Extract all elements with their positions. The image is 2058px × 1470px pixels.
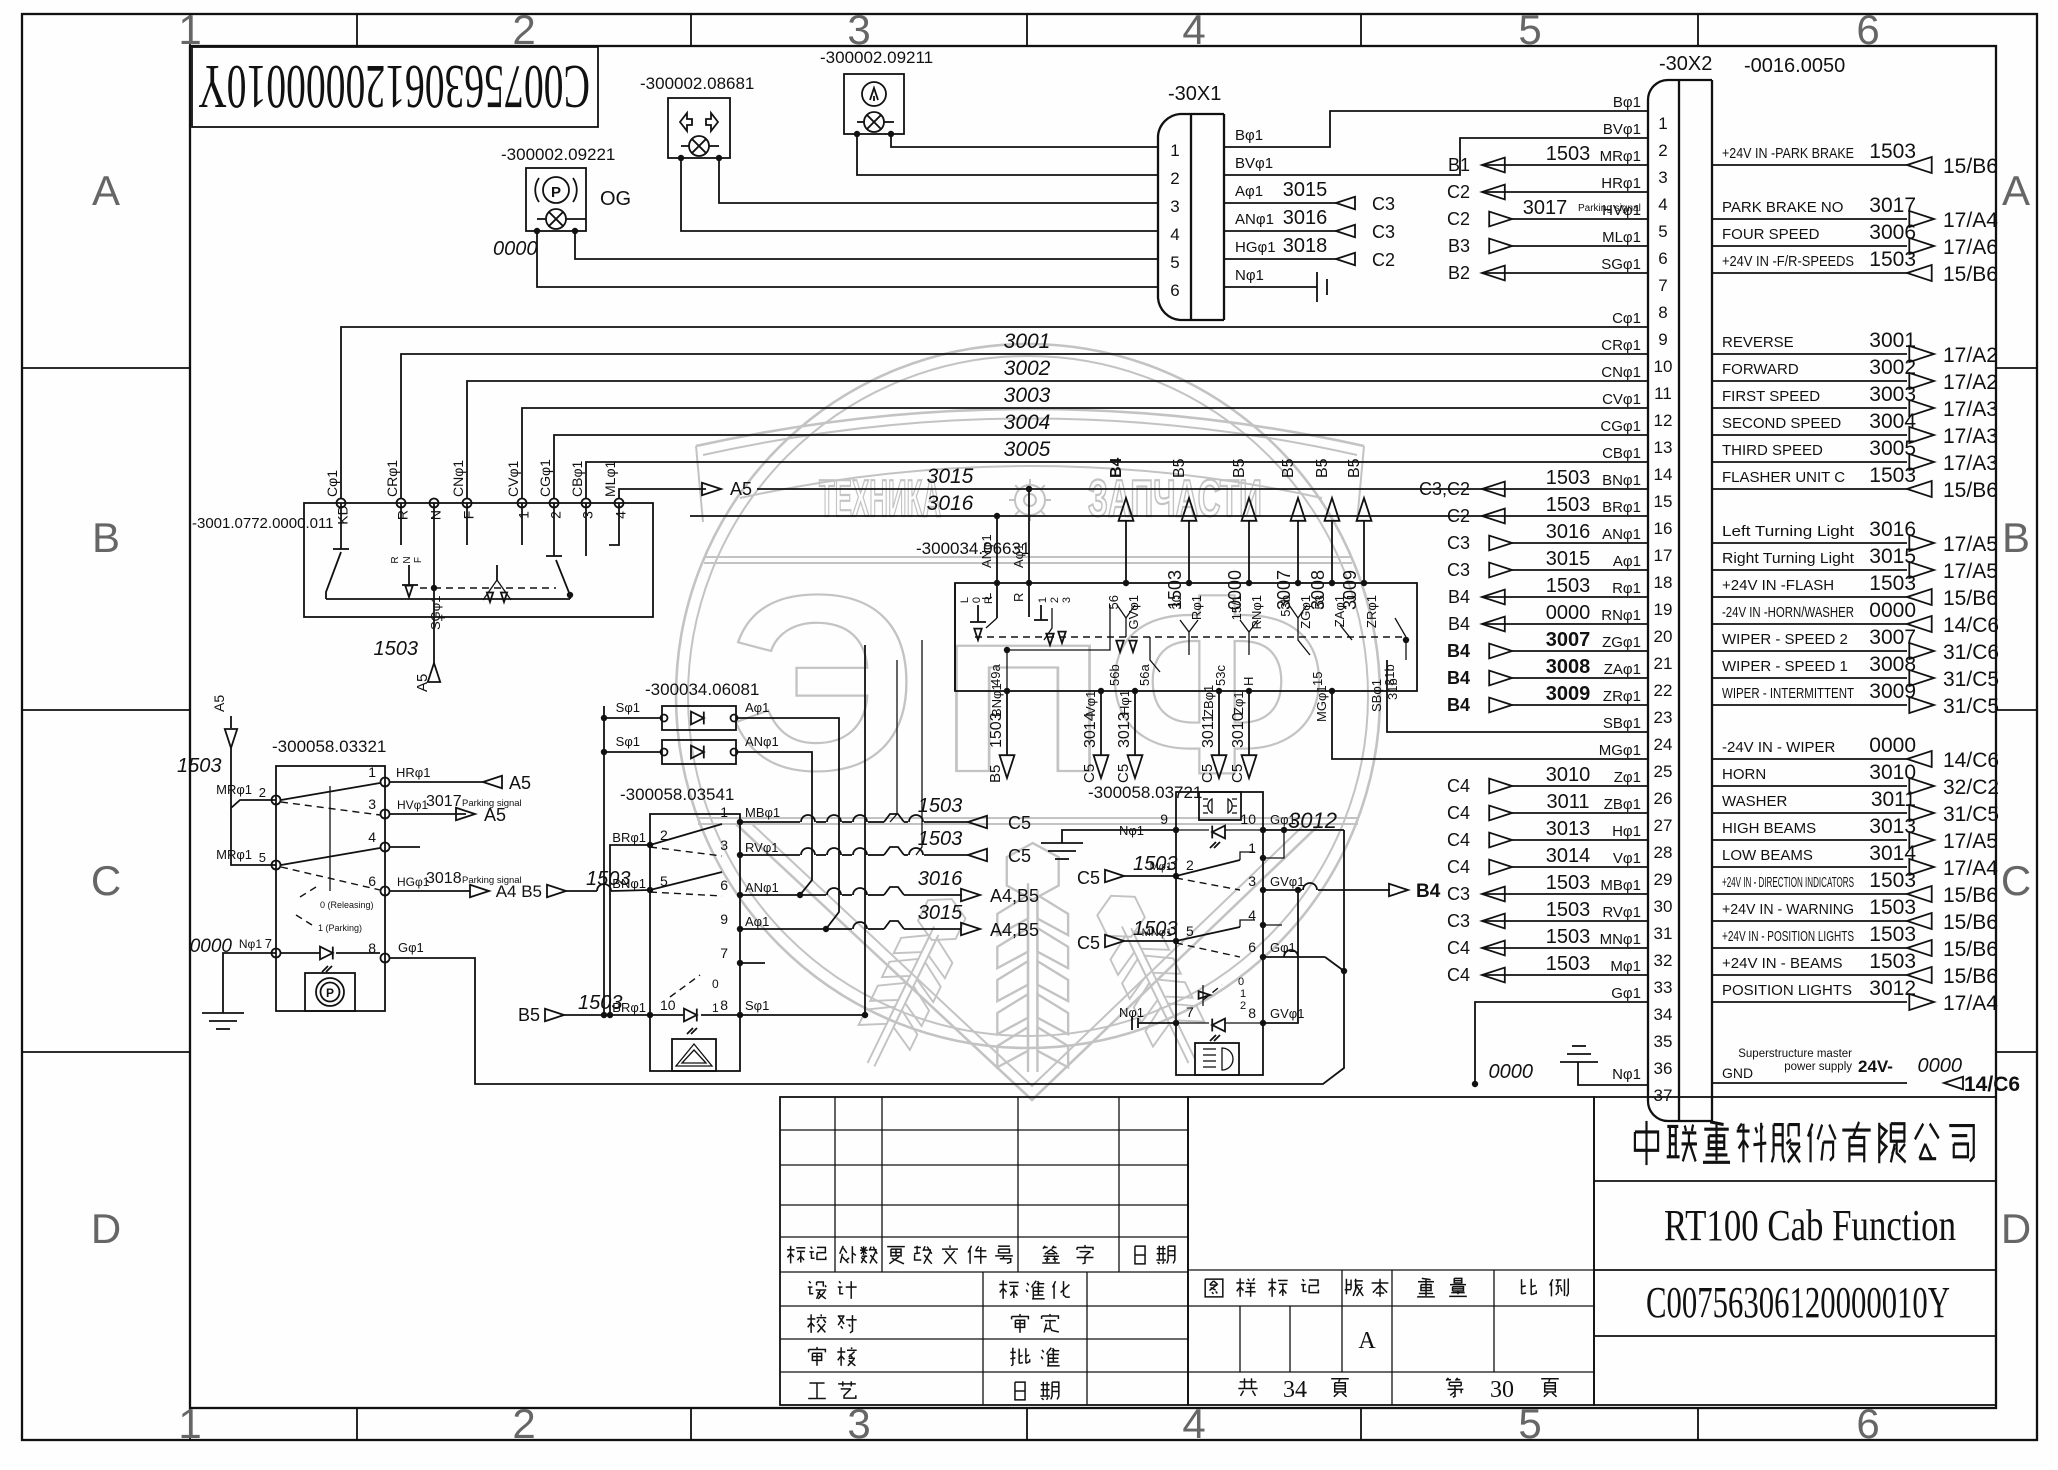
pin N of gear switch (430, 499, 439, 508)
svg-text:F: F (413, 557, 424, 563)
svg-text:C4: C4 (1447, 938, 1470, 958)
svg-text:30: 30 (1169, 595, 1184, 609)
svg-text:A4,B5: A4,B5 (990, 886, 1039, 906)
svg-text:3015: 3015 (1283, 179, 1328, 201)
svg-text:14/C6: 14/C6 (1943, 614, 1999, 637)
svg-text:FOUR SPEED: FOUR SPEED (1722, 226, 1820, 243)
pin 3 of gear switch (582, 499, 591, 508)
svg-text:16: 16 (1654, 519, 1673, 538)
svg-text:53c: 53c (1213, 665, 1228, 686)
svg-text:9: 9 (720, 911, 728, 927)
svg-text:Gφ1: Gφ1 (398, 940, 424, 955)
svg-text:+: + (438, 610, 446, 625)
svg-text:CVφ1: CVφ1 (505, 460, 521, 497)
pin4 stub (1263, 924, 1282, 926)
svg-text:ZRφ1: ZRφ1 (1603, 688, 1641, 705)
svg-text:29: 29 (1654, 870, 1673, 889)
svg-text:Nφ1: Nφ1 (1612, 1066, 1641, 1083)
svg-text:3008: 3008 (1546, 656, 1591, 678)
svg-text:12: 12 (1654, 411, 1673, 430)
svg-text:19: 19 (1654, 600, 1673, 619)
svg-text:3014: 3014 (1082, 712, 1099, 748)
svg-text:A5: A5 (211, 695, 227, 712)
svg-text:1503: 1503 (1869, 923, 1916, 946)
svg-text:B4: B4 (1447, 641, 1470, 661)
svg-text:-300002.09221: -300002.09221 (501, 145, 615, 164)
svg-text:MNφ1: MNφ1 (1600, 931, 1641, 948)
wire 09211 right to -30X1 pin 1 (891, 134, 1158, 147)
svg-text:MLφ1: MLφ1 (602, 460, 618, 497)
svg-text:B5: B5 (518, 1005, 540, 1025)
svg-text:0000: 0000 (1869, 734, 1916, 757)
svg-text:HORN: HORN (1722, 766, 1766, 783)
svg-text:Sφ1: Sφ1 (745, 998, 769, 1013)
svg-text:6: 6 (1856, 6, 1879, 53)
MLphi1 wire to A5 arrow (619, 489, 706, 498)
svg-text:3010: 3010 (1230, 712, 1247, 748)
svg-text:ANφ1: ANφ1 (979, 534, 994, 568)
svg-text:5: 5 (1658, 222, 1667, 241)
signal row pin 27: WASHER (1712, 812, 1907, 814)
svg-text:B4: B4 (1448, 614, 1470, 634)
svg-text:15/B6: 15/B6 (1943, 884, 1998, 907)
svg-text:-24V IN -HORN/WASHER: -24V IN -HORN/WASHER (1722, 604, 1854, 621)
net 3016 long wire (pin 16 row) (690, 515, 1482, 517)
stub pin 19: B4 (1512, 596, 1648, 598)
svg-text:+24V IN -F/R-SPEEDS: +24V IN -F/R-SPEEDS (1722, 253, 1854, 270)
title block right section (1594, 1097, 1996, 1405)
svg-text:3: 3 (847, 1400, 870, 1447)
svg-text:1503: 1503 (1869, 140, 1916, 163)
svg-text:56a: 56a (1137, 664, 1152, 686)
svg-text:3: 3 (1248, 873, 1256, 889)
svg-text:8: 8 (1658, 303, 1667, 322)
svg-text:4: 4 (1182, 6, 1205, 53)
svg-text:Bφ1: Bφ1 (1235, 127, 1263, 144)
svg-text:1: 1 (1658, 114, 1667, 133)
svg-text:2: 2 (1658, 141, 1667, 160)
pin F of gear switch (463, 499, 472, 508)
svg-text:FLASHER UNIT C: FLASHER UNIT C (1722, 469, 1845, 486)
svg-text:34: 34 (1654, 1005, 1673, 1024)
svg-text:Sφ1: Sφ1 (616, 734, 640, 749)
stub pin 15: C3,C2 (1512, 488, 1648, 490)
wire 09221 right to -30X1 pin 5 (575, 231, 1158, 259)
svg-text:1503: 1503 (1869, 869, 1916, 892)
stub pin 23: B4 (1512, 704, 1648, 706)
svg-text:C4: C4 (1447, 965, 1470, 985)
svg-text:A5: A5 (509, 773, 531, 793)
svg-text:MLφ1: MLφ1 (1602, 229, 1641, 246)
stub pin 29: C4 (1512, 866, 1648, 868)
svg-text:C3: C3 (1372, 194, 1395, 214)
svg-text:10: 10 (1240, 811, 1256, 827)
svg-text:1503: 1503 (1869, 248, 1916, 271)
svg-text:6: 6 (1856, 1400, 1879, 1447)
-30X1 pin1 wire Bphi1 (1224, 111, 1648, 147)
svg-text:-24V IN - WIPER: -24V IN - WIPER (1722, 739, 1836, 756)
signal row pin 32: +24V IN - POSITION LIGHTS (1712, 947, 1907, 949)
svg-text:17/A2: 17/A2 (1943, 371, 1998, 394)
misc verticals (890, 660, 897, 822)
svg-text:RVφ1: RVφ1 (1602, 904, 1641, 921)
svg-text:25: 25 (1654, 762, 1673, 781)
signal row pin 13: SECOND SPEED (1712, 434, 1907, 436)
svg-text:C3: C3 (1447, 560, 1470, 580)
svg-text:3013: 3013 (1546, 818, 1591, 840)
svg-text:2: 2 (1049, 597, 1061, 603)
svg-text:RT100 Cab Function: RT100 Cab Function (1664, 1201, 1956, 1250)
svg-text:B5: B5 (1231, 458, 1248, 478)
svg-text:6: 6 (1170, 281, 1179, 300)
wires from gear switch to -30X2 pins 9-14 (341, 327, 1648, 498)
svg-text:A4,B5: A4,B5 (990, 920, 1039, 940)
svg-text:C4: C4 (1447, 857, 1470, 877)
title block header row labels (787, 1246, 805, 1264)
signal row pin 18: Right Turning Light (1712, 569, 1907, 571)
svg-text:1: 1 (368, 764, 376, 780)
svg-text:3004: 3004 (1004, 411, 1051, 434)
svg-text:R: R (1011, 593, 1026, 602)
svg-text:1503: 1503 (1546, 953, 1591, 975)
svg-text:+24V IN - DIRECTION INDICATORS: +24V IN - DIRECTION INDICATORS (1722, 874, 1854, 891)
svg-text:Aφ1: Aφ1 (1235, 183, 1263, 200)
stub pin 28: C4 (1512, 839, 1648, 841)
svg-text:3015: 3015 (927, 465, 974, 488)
03541 right wires with jumps (740, 821, 800, 823)
svg-text:3: 3 (1061, 597, 1073, 603)
signal row pin 37: GND (1712, 1082, 1907, 1084)
svg-text:N: N (402, 556, 413, 563)
svg-text:1: 1 (1248, 840, 1256, 856)
svg-text:BVφ1: BVφ1 (1603, 121, 1641, 138)
svg-text:Zφ1: Zφ1 (1231, 691, 1246, 715)
svg-text:ANφ1: ANφ1 (1235, 211, 1274, 228)
svg-text:1503: 1503 (1546, 143, 1591, 165)
stub pin 21: B4 (1512, 650, 1648, 652)
svg-text:-300058.03541: -300058.03541 (620, 785, 734, 804)
G net: pin10 to vertical (1263, 829, 1344, 831)
svg-text:17/A3: 17/A3 (1943, 398, 1998, 421)
svg-text:0000: 0000 (1869, 599, 1916, 622)
svg-text:GND: GND (1722, 1065, 1753, 1081)
signal row pin 20: -24V IN -HORN/WASHER (1712, 623, 1907, 625)
svg-text:SGφ1: SGφ1 (1601, 256, 1641, 273)
svg-text:14/C6: 14/C6 (1943, 749, 1999, 772)
chassis ground at pin9 (1062, 830, 1176, 843)
svg-text:J: J (1344, 595, 1359, 602)
svg-text:13: 13 (1654, 438, 1673, 457)
svg-text:15/B6: 15/B6 (1943, 965, 1998, 988)
pin 2 of gear switch (550, 499, 559, 508)
svg-text:5: 5 (1518, 1400, 1541, 1447)
svg-text:MRφ1: MRφ1 (216, 782, 252, 797)
svg-text:B5: B5 (1346, 458, 1363, 478)
svg-text:3010: 3010 (1546, 764, 1591, 786)
svg-text:CNφ1: CNφ1 (1601, 364, 1641, 381)
svg-text:17/A5: 17/A5 (1943, 560, 1998, 583)
svg-text:1: 1 (1240, 988, 1246, 1000)
svg-text:0000: 0000 (1546, 602, 1591, 624)
svg-text:35: 35 (1654, 1032, 1673, 1051)
headlight symbol box (1195, 1043, 1239, 1075)
svg-text:1: 1 (178, 1400, 201, 1447)
03541 internals (650, 824, 722, 845)
svg-text:A: A (1358, 1328, 1376, 1354)
svg-text:B: B (92, 514, 120, 561)
svg-text:Zφ1: Zφ1 (1614, 769, 1641, 786)
svg-text:-30X2: -30X2 (1659, 53, 1712, 75)
svg-text:4: 4 (1170, 225, 1179, 244)
ground and 0000 at pin 37 (1578, 1062, 1648, 1085)
stub pin 4: C2 (1512, 191, 1648, 193)
svg-text:Sφ1: Sφ1 (616, 700, 640, 715)
signal row pin 28: HIGH BEAMS (1712, 839, 1907, 841)
svg-text:18: 18 (1654, 573, 1673, 592)
svg-text:17/A2: 17/A2 (1943, 344, 1998, 367)
svg-text:WIPER - SPEED 2: WIPER - SPEED 2 (1722, 631, 1848, 648)
svg-text:C3: C3 (1447, 884, 1470, 904)
svg-text:R: R (394, 510, 410, 520)
gear switch internals (340, 503, 342, 549)
stub pin 5: C2 (1512, 218, 1648, 220)
svg-text:3: 3 (720, 837, 728, 853)
svg-text:6: 6 (720, 877, 728, 893)
stub pin 32: C4 (1512, 947, 1648, 949)
pins of 03321 (381, 778, 390, 787)
svg-text:Parking signal: Parking signal (1578, 203, 1641, 214)
svg-text:ZGφ1: ZGφ1 (1602, 634, 1641, 651)
SB wire to -30X2 pin 24 (1387, 660, 1648, 732)
svg-text:1503: 1503 (1546, 575, 1591, 597)
svg-text:F: F (460, 511, 476, 520)
svg-text:15: 15 (1654, 492, 1673, 511)
svg-text:Nφ1: Nφ1 (1235, 267, 1264, 284)
svg-text:1: 1 (1037, 597, 1049, 603)
pin34 wire to G net (1475, 1002, 1648, 1084)
svg-text:3002: 3002 (1004, 357, 1051, 380)
S net vertical from 03541 pin8 (740, 645, 865, 1015)
-30X1 pin2 wire BVphi1 (1224, 138, 1648, 175)
svg-text:ZBφ1: ZBφ1 (1201, 685, 1216, 717)
svg-text:1503: 1503 (1546, 467, 1591, 489)
svg-text:C5: C5 (1077, 868, 1100, 888)
V wire down to C5 (3014) (1100, 691, 1102, 755)
svg-text:2: 2 (1240, 1000, 1246, 1012)
svg-text:1503: 1503 (1869, 950, 1916, 973)
svg-text:22: 22 (1654, 681, 1673, 700)
svg-text:ZBφ1: ZBφ1 (1604, 796, 1641, 813)
svg-text:2: 2 (512, 1400, 535, 1447)
svg-text:32: 32 (1654, 951, 1673, 970)
svg-text:C4: C4 (1447, 803, 1470, 823)
stub pin 18: C3 (1512, 569, 1648, 571)
wire 08681 right to -30X1 pin 3 (719, 158, 1158, 203)
-30X1 pin5 wire HGphi1 to C2 (1224, 258, 1336, 260)
svg-text:0000: 0000 (1918, 1055, 1963, 1077)
svg-text:2: 2 (259, 785, 266, 800)
svg-text:HGφ1: HGφ1 (1235, 239, 1276, 256)
svg-text:3015: 3015 (1546, 548, 1591, 570)
svg-text:power supply: power supply (1784, 1061, 1852, 1073)
svg-text:+24V IN - POSITION LIGHTS: +24V IN - POSITION LIGHTS (1722, 928, 1854, 945)
svg-text:53b: 53b (1278, 595, 1293, 617)
net 3015 long wire (pin 15 row) (757, 488, 1482, 490)
svg-text:Superstructure master: Superstructure master (1738, 1048, 1852, 1060)
svg-text:3009: 3009 (1546, 683, 1591, 705)
signal row pin 3: +24V IN -PARK BRAKE (1712, 164, 1907, 166)
svg-text:B4: B4 (1416, 881, 1441, 902)
connector -30X2 (1648, 80, 1679, 1121)
svg-text:3016: 3016 (918, 868, 963, 890)
svg-text:14/C6: 14/C6 (1964, 1073, 2020, 1096)
svg-text:32/C2: 32/C2 (1943, 776, 1999, 799)
svg-text:C5: C5 (1077, 933, 1100, 953)
mirrored drawing number box (192, 47, 598, 127)
svg-text:0: 0 (971, 597, 983, 603)
svg-text:HVφ1: HVφ1 (397, 798, 428, 812)
multifunction switch box (955, 583, 1417, 691)
svg-text:3018: 3018 (426, 870, 462, 887)
svg-text:8: 8 (720, 997, 728, 1013)
svg-text:3017: 3017 (1523, 197, 1568, 219)
svg-text:FORWARD: FORWARD (1722, 361, 1799, 378)
svg-text:3: 3 (847, 6, 870, 53)
svg-text:CRφ1: CRφ1 (384, 460, 400, 497)
svg-text:ANφ1: ANφ1 (745, 880, 779, 895)
signal row pin 33: +24V IN - BEAMS (1712, 974, 1907, 976)
svg-text:1503: 1503 (1869, 572, 1916, 595)
svg-text:Nφ1: Nφ1 (239, 937, 262, 951)
svg-text:3014: 3014 (1546, 845, 1591, 867)
svg-text:R: R (390, 556, 401, 563)
svg-text:0: 0 (712, 977, 719, 991)
S net left of diodes (604, 717, 662, 719)
svg-text:C00756306120000010Y: C00756306120000010Y (198, 52, 590, 120)
MG wire to -30X2 pin 25 (1332, 691, 1648, 759)
svg-text:14: 14 (1654, 465, 1673, 484)
svg-text:31/C6: 31/C6 (1943, 641, 1999, 664)
svg-text:10: 10 (660, 997, 676, 1013)
svg-text:17/A4: 17/A4 (1943, 857, 1998, 880)
svg-text:MRφ1: MRφ1 (1600, 148, 1641, 165)
svg-text:Gφ1: Gφ1 (1611, 985, 1641, 1002)
svg-text:1: 1 (515, 511, 531, 519)
svg-text:3009: 3009 (1340, 570, 1360, 610)
svg-text:B4: B4 (1108, 457, 1125, 478)
svg-text:C5: C5 (1081, 764, 1098, 783)
svg-text:B: B (2002, 514, 2030, 561)
signal row pin 11: FORWARD (1712, 380, 1907, 382)
svg-text:SECOND SPEED: SECOND SPEED (1722, 415, 1841, 432)
03721 internals (1212, 826, 1225, 839)
svg-text:SBφ1: SBφ1 (1603, 715, 1641, 732)
-30X1 pin4 wire ANphi1 to C3 (1224, 230, 1336, 232)
signal row pin 6: FOUR SPEED (1712, 245, 1907, 247)
svg-text:Left Turning Light: Left Turning Light (1722, 523, 1855, 540)
svg-text:8: 8 (1248, 1005, 1256, 1021)
pin8 GV up to pin3 wire (1263, 890, 1298, 1023)
svg-text:31/C5: 31/C5 (1943, 668, 1999, 691)
pin 4 of gear switch (615, 499, 624, 508)
svg-text:BRφ1: BRφ1 (1602, 499, 1641, 516)
svg-text:B5: B5 (1171, 458, 1188, 478)
svg-text:26: 26 (1654, 789, 1673, 808)
svg-text:P: P (551, 184, 561, 201)
svg-text:CGφ1: CGφ1 (537, 459, 553, 497)
gear: AN/A into box top (994, 580, 1000, 586)
svg-text:4: 4 (1658, 195, 1667, 214)
svg-text:Cφ1: Cφ1 (324, 470, 340, 497)
stub pin 26: C4 (1512, 785, 1648, 787)
svg-text:A: A (92, 167, 120, 214)
svg-text:1: 1 (720, 804, 728, 820)
svg-text:3: 3 (579, 511, 595, 519)
svg-text:15/B6: 15/B6 (1943, 938, 1998, 961)
svg-text:Bφ1: Bφ1 (1613, 94, 1641, 111)
AN / A verticals from 3016/3015 (996, 516, 998, 618)
wire RNφ1 up to B5 (1248, 520, 1250, 583)
svg-text:ZAφ1: ZAφ1 (1604, 661, 1641, 678)
svg-text:Hφ1: Hφ1 (1612, 823, 1641, 840)
svg-text:31: 31 (1654, 924, 1673, 943)
svg-text:MBφ1: MBφ1 (1600, 877, 1641, 894)
svg-text:B3: B3 (1448, 236, 1470, 256)
signal row pin 10: REVERSE (1712, 353, 1907, 355)
svg-text:6: 6 (1248, 939, 1256, 955)
svg-text:ТЕХНИКА: ТЕХНИКА (819, 470, 941, 528)
svg-text:PARK BRAKE NO: PARK BRAKE NO (1722, 199, 1843, 216)
mirrored drawing number text (rotated 180) (198, 52, 590, 120)
svg-text:0000: 0000 (1489, 1061, 1534, 1083)
svg-text:4: 4 (1182, 1400, 1205, 1447)
svg-text:CGφ1: CGφ1 (1600, 418, 1641, 435)
svg-text:1503: 1503 (1546, 872, 1591, 894)
Gphi1 long wire from 03321 pin 8 (390, 830, 1344, 1084)
svg-text:4: 4 (612, 511, 628, 519)
svg-text:MBφ1: MBφ1 (745, 805, 780, 820)
svg-text:21: 21 (1654, 654, 1673, 673)
svg-text:15/1: 15/1 (1229, 595, 1244, 620)
svg-text:D: D (91, 1205, 121, 1252)
svg-text:HRφ1: HRφ1 (396, 765, 430, 780)
svg-text:15: 15 (1310, 672, 1325, 686)
svg-text:49a: 49a (988, 664, 1003, 686)
company name 中联重科股份有限公司 (1635, 1121, 1658, 1165)
svg-text:C3: C3 (1372, 222, 1395, 242)
svg-text:C5: C5 (1199, 764, 1216, 783)
svg-text:5: 5 (1518, 6, 1541, 53)
svg-text:P: P (326, 986, 334, 1000)
svg-text:0: 0 (1238, 976, 1244, 988)
zone tick marks (189, 14, 191, 46)
svg-text:-0016.0050: -0016.0050 (1744, 55, 1845, 77)
svg-text:6: 6 (368, 873, 376, 889)
svg-text:9: 9 (1658, 330, 1667, 349)
svg-text:B2: B2 (1448, 263, 1470, 283)
svg-text:7: 7 (1658, 276, 1667, 295)
svg-text:1503: 1503 (1133, 918, 1178, 940)
pin7 stub (740, 962, 765, 964)
svg-text:WIPER - SPEED 1: WIPER - SPEED 1 (1722, 658, 1848, 675)
signal row pin 15: FLASHER UNIT C (1712, 488, 1907, 490)
svg-text:RVφ1: RVφ1 (745, 840, 778, 855)
svg-text:15/B6: 15/B6 (1943, 263, 1998, 286)
pin R of gear switch (397, 499, 406, 508)
svg-text:CBφ1: CBφ1 (1602, 445, 1641, 462)
svg-text:1503: 1503 (586, 868, 631, 890)
wire 08681 left to -30X1 pin 4 (681, 158, 1158, 231)
